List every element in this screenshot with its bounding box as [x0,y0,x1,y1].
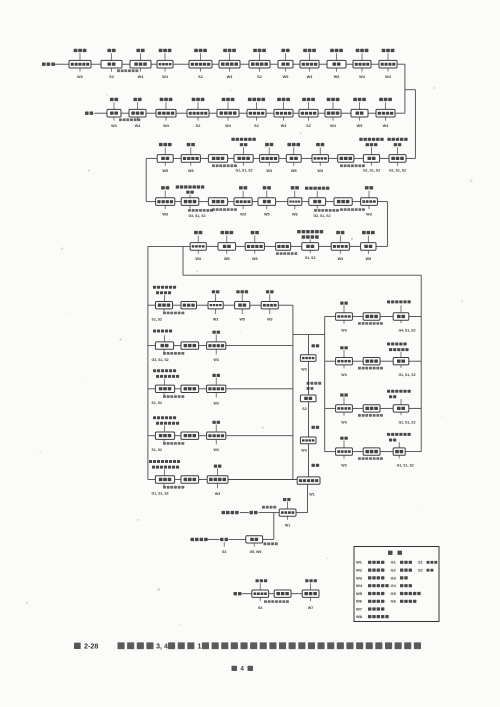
row3 box4 [234,155,253,163]
R2 plating box [393,358,409,365]
row3 box5 [260,155,279,163]
block row A [148,304,156,306]
legend box [354,547,439,622]
caption fig char [74,643,81,649]
svg-text:G4: G4 [391,583,397,588]
wire row4->row5 right drop [387,202,389,247]
block row D box2 [181,432,199,439]
middle box m2 [300,395,316,402]
svg-text:G1: G1 [391,560,397,565]
svg-text:S1, S2: S1, S2 [305,256,316,260]
svg-text:W7: W7 [356,606,363,611]
note part of parts lower [264,542,278,545]
block row A box2 [181,302,197,309]
R1 rinse box [336,313,353,320]
block row C box1 [155,385,174,392]
svg-text:W3: W3 [195,257,201,261]
right column row R1 [325,316,336,318]
svg-text:W5: W5 [291,169,297,173]
row2 box6 [247,109,266,117]
row2 box3 [156,109,176,117]
svg-text:4: 4 [240,666,244,673]
svg-text:S2: S2 [109,75,114,79]
left spine down to lower block [147,246,149,479]
svg-text:3, 4: 3, 4 [156,643,168,650]
svg-text:W3: W3 [292,212,298,216]
label above m1 [312,344,320,347]
middle box m3 [300,437,316,444]
svg-text:G2: G2 [391,568,397,573]
svg-text:W5: W5 [365,257,371,261]
row1 box2 [101,60,122,68]
svg-text:W3: W3 [301,367,306,371]
row4 box9 [361,198,378,206]
svg-text:W3: W3 [214,358,219,362]
strip rinse box [302,590,319,597]
row5 box5 [302,243,319,251]
strip recovery box [274,590,291,597]
row2 box10 [351,109,368,117]
bottom dryer box [246,536,263,543]
row2 box9 [325,109,341,117]
middle connector [293,334,325,336]
right column vertical-3 [324,317,326,452]
row1 box11 [353,60,371,68]
svg-text:G5: G5 [391,591,397,596]
block row E box1 [155,476,174,483]
svg-text:W3: W3 [317,169,323,173]
block row D box3 [207,432,226,439]
block row A box1 [156,302,173,309]
svg-text:W5: W5 [264,212,270,216]
svg-text:S2: S2 [257,75,262,79]
R3 plating box [393,405,409,412]
row1 box1 [69,60,91,68]
block row C box3 [207,385,226,392]
svg-text:W3: W3 [266,169,272,173]
row2 box11 [376,109,395,117]
svg-text:G1, S1, S2: G1, S1, S2 [152,492,169,496]
row4 box1 [156,198,175,206]
middle chain vertical [308,335,310,355]
legend title [388,551,393,555]
svg-text:W3: W3 [213,318,218,322]
svg-text:W3: W3 [356,575,363,580]
strip box [252,590,269,597]
svg-text:W5: W5 [224,257,230,261]
svg-text:W5: W5 [240,318,245,322]
row1 box8 [278,60,293,68]
row1 input label [42,63,55,66]
middle box m1 [300,355,316,362]
svg-text:W1: W1 [309,492,314,496]
R4 recovery box [363,448,380,455]
label above bottom rinse [283,498,291,501]
svg-text:W3: W3 [366,212,372,216]
R2 rinse box [336,358,353,365]
row4 box4 [234,198,252,206]
note part of parts upper [262,506,276,509]
label above strip box [256,579,268,582]
svg-text:W3: W3 [162,212,168,216]
svg-text:S1, S2: S1, S2 [152,448,163,452]
row3 box8 [338,155,354,163]
svg-text:W3: W3 [341,329,346,333]
text finished goods lower [191,538,208,541]
label above m3 [312,426,320,429]
svg-text:W3: W3 [341,373,346,377]
svg-text:W3: W3 [215,492,220,496]
label above strip rinse [305,579,317,582]
svg-text:S2: S2 [306,124,311,128]
middle box m4 unload [297,477,320,484]
svg-text:W3: W3 [214,401,219,405]
row2 side note [119,118,140,121]
row4 box8 [334,198,352,206]
svg-text:G2, S1, S2: G2, S1, S2 [313,214,330,218]
R1 recovery box [363,313,380,320]
svg-text:S1: S1 [418,560,424,565]
svg-text:W3: W3 [252,257,258,261]
svg-text:S3: S3 [222,550,226,554]
svg-text:W3: W3 [214,448,219,452]
svg-text:W4: W4 [385,75,392,79]
row4 chain [146,201,155,203]
svg-text:W4: W4 [383,124,390,128]
row4 box7 [309,198,326,206]
row1 box9 [300,60,319,68]
svg-text:S4: S4 [258,606,262,610]
row3 chain [406,157,415,159]
row5 box4 [276,243,291,251]
svg-text:W8: W8 [356,614,363,619]
svg-text:W4: W4 [225,124,232,128]
row5 box6 [331,243,349,251]
row4 box3 [208,198,227,206]
middle note [307,382,322,385]
block row C box2 [181,385,199,392]
wire: rows 1-2 merge and drop to row 3 [404,64,406,113]
svg-text:W3: W3 [240,212,246,216]
block row D box1 [155,432,174,439]
svg-text:W5: W5 [356,591,363,596]
block row A box3 [208,302,223,309]
row5 box3 [245,243,264,251]
svg-text:W1: W1 [356,560,363,565]
svg-text:W4: W4 [307,75,314,79]
block row E box2 [181,476,199,483]
block row A box5 [261,302,278,309]
svg-text:W3: W3 [341,420,346,424]
svg-text:G1, S1, S2: G1, S1, S2 [397,464,414,468]
text finished goods upper [222,511,239,514]
svg-text:G1, S1, S2: G1, S1, S2 [398,373,415,377]
svg-text:W1: W1 [285,524,290,528]
svg-text:W4: W4 [330,124,337,128]
scan noise speckles [26,87,473,641]
svg-text:W4: W4 [138,75,145,79]
text dry upper [250,511,258,514]
svg-text:2-28: 2-28 [84,641,98,650]
svg-text:W3: W3 [267,318,272,322]
note strip solution [264,600,289,603]
text dry lower [220,538,228,541]
row4 box2 [181,198,199,206]
page number [232,666,238,671]
row3 box6 [286,155,301,163]
svg-text:G1, S1, S2: G1, S1, S2 [363,169,380,173]
svg-text:S2: S2 [196,124,201,128]
block row D [148,435,156,437]
svg-text:G5, W6: G5, W6 [250,550,262,554]
svg-text:W4: W4 [227,75,234,79]
block row C [148,388,156,390]
R4 rinse box [336,448,353,455]
svg-text:G3, S1, S2: G3, S1, S2 [188,214,205,218]
row1 box5 [189,60,212,68]
svg-text:W4: W4 [162,75,169,79]
svg-text:W3: W3 [301,449,306,453]
svg-text:S2: S2 [302,407,306,411]
wire row3->row4 left drop [145,158,147,201]
svg-text:W4: W4 [281,124,288,128]
right column row R2 [325,360,336,362]
svg-text:W5: W5 [162,169,168,173]
svg-text:W2: W2 [111,124,117,128]
svg-text:S1, S2: S1, S2 [152,317,163,321]
svg-text:W3: W3 [188,169,194,173]
svg-text:S2: S2 [254,124,259,128]
svg-text:W5: W5 [357,124,363,128]
right column row R4 [325,451,336,453]
block row B box3 [207,342,226,349]
block row A box4 [235,302,250,309]
block row B box1 [155,342,173,349]
row5 chain [376,245,388,247]
vertical-1 connecting block rows [292,305,294,479]
svg-text:G6: G6 [391,599,397,604]
R1 plating box [393,313,409,320]
label above m4 [312,464,320,467]
row2 box4 [187,109,209,117]
row2 box8 [299,109,318,117]
svg-text:W7: W7 [308,606,313,610]
svg-text:W3: W3 [341,464,346,468]
svg-text:W4: W4 [356,583,363,588]
block row B box2 [181,342,199,349]
svg-text:S2: S2 [418,568,424,573]
svg-text:S1, S2: S1, S2 [152,401,163,405]
row2 box2 [129,109,146,117]
row5 box7 [361,243,376,251]
T branch to lower chain [273,513,275,540]
svg-text:W4: W4 [135,124,142,128]
row5 box2 [218,243,236,251]
svg-text:W5: W5 [334,75,340,79]
row2 box5 [217,109,239,117]
row1 box6 [219,60,240,68]
R4 plating box [393,448,405,455]
svg-text:G1, S1, S2: G1, S1, S2 [389,169,406,173]
block row B [148,345,156,347]
branch wire row5 -> right column spine [182,246,184,275]
svg-text:W5: W5 [283,75,289,79]
svg-text:G3: G3 [391,575,397,580]
row2 box7 [274,109,293,117]
right column row R3 [325,407,336,409]
row2 box1 [107,109,121,117]
svg-text:W2: W2 [356,568,363,573]
R3 recovery box [363,405,380,412]
row1 box12 [379,60,397,68]
R3 rinse box [336,405,353,412]
row2 input label [85,112,93,115]
row4 box6 [288,198,302,206]
svg-text:G3, S1, S2: G3, S1, S2 [152,358,169,362]
bottom rinse box upper [279,509,296,516]
svg-text:W6: W6 [356,599,363,604]
row4 box5 [258,198,276,206]
row3 box2 [181,155,200,163]
row1 box3 [130,60,151,68]
svg-text:1: 1 [197,643,201,650]
R2 recovery box [363,358,380,365]
row3 box1 [157,155,173,163]
row1 box4 [157,60,173,68]
row3 box9 [363,155,379,163]
svg-text:S2: S2 [198,75,203,79]
text rack [234,592,242,595]
svg-text:W2: W2 [77,75,83,79]
block row E [148,479,156,481]
svg-text:G1, S1, S2: G1, S1, S2 [235,169,252,173]
row1 side note [117,69,138,72]
block row E box3 [207,476,228,483]
svg-text:W4: W4 [359,75,366,79]
row1 box10 [327,60,346,68]
svg-text:G1, S1, S2: G1, S1, S2 [398,420,415,424]
svg-text:W4: W4 [163,124,170,128]
row3 box7 [312,155,328,163]
svg-text:G4, S1, S2: G4, S1, S2 [398,329,415,333]
row3 box10 [389,155,406,163]
row1 box7 [249,60,270,68]
row3 box3 [208,155,227,163]
row5 box1 [190,243,206,251]
svg-text:W3: W3 [337,257,343,261]
